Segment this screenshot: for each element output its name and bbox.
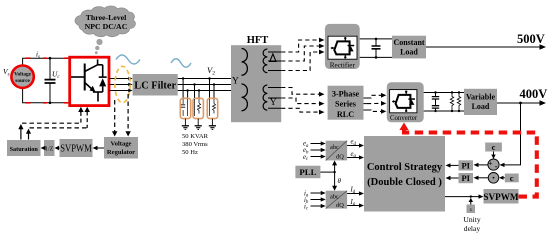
dashed wire HFT to RLC b — [281, 98, 320, 104]
sine wave symbol 2 — [171, 59, 191, 68]
svg-text:Voltage: Voltage — [110, 141, 131, 148]
wire bottom from source to inverter — [23, 88, 70, 103]
RLC bank 1 ground — [182, 119, 189, 130]
svg-text:Saturation: Saturation — [10, 146, 39, 153]
three-phase wires inverter to LC filter — [109, 79, 131, 91]
dashed wire HFT to RLC c — [281, 108, 320, 112]
voltage source V1 — [11, 66, 33, 88]
wires ia ib ic into abc/dQ — [311, 193, 323, 206]
svg-text:Voltage: Voltage — [14, 72, 32, 78]
split capacitor lower — [432, 105, 439, 111]
svg-text:dQ: dQ — [336, 154, 344, 161]
c box right — [505, 173, 519, 183]
arrowheads into LC filter — [128, 77, 132, 93]
svg-text:Constant: Constant — [393, 38, 424, 47]
load R element — [450, 93, 453, 110]
svg-text:Regulator: Regulator — [107, 149, 135, 156]
HFT transformer box — [231, 45, 281, 122]
red arrow into converter — [399, 123, 408, 131]
Saturation box — [7, 140, 41, 156]
svg-text:Y: Y — [270, 98, 277, 108]
svg-text:-: - — [495, 162, 498, 171]
DC link capacitor — [372, 39, 381, 58]
wire multiplier to PI2 — [476, 177, 488, 179]
wire PI2 to control strategy — [448, 177, 459, 179]
wire 1/Z to Saturation — [43, 147, 44, 149]
IGBT icon U1 — [71, 59, 103, 101]
node cap bottom — [49, 102, 52, 105]
node 400V feedback — [519, 102, 522, 105]
Converter block — [387, 82, 424, 122]
node cap top — [49, 57, 52, 60]
node taps to RLC banks — [183, 79, 214, 99]
svg-text:SVPWM: SVPWM — [60, 144, 92, 155]
label ea eb ec — [303, 141, 309, 163]
dashed measure wire to VR a — [114, 100, 116, 133]
wires Id Iq to control strategy — [347, 194, 361, 206]
three-phase wires LC filter to HFT — [178, 79, 231, 91]
node — [375, 38, 378, 41]
svg-text:Three-Level: Three-Level — [86, 13, 127, 22]
sine wave symbol 1 — [116, 55, 140, 64]
Rectifier block — [325, 24, 360, 69]
SVPWM box (output) — [483, 189, 519, 204]
dashed wire HFT to RLC a — [281, 88, 320, 95]
svg-text:c: c — [510, 173, 514, 183]
wire summer1 to PI1 — [476, 164, 488, 166]
feedback wire 400V to summer — [502, 103, 521, 165]
gate pulse dashed wires from Saturation — [18, 123, 87, 139]
label ia ib ic — [304, 190, 309, 211]
svg-text:Y: Y — [232, 77, 239, 87]
svg-text:c: c — [492, 142, 496, 152]
wire control strategy to SVPWM — [445, 196, 481, 198]
svg-text:PI: PI — [461, 173, 470, 183]
svg-text:·: · — [492, 172, 496, 184]
SVPWM box (modulator) — [60, 139, 93, 157]
svg-text:Rectifier: Rectifier — [330, 61, 356, 69]
svg-text:380 Vrms: 380 Vrms — [182, 141, 208, 148]
wire to 500V — [426, 46, 542, 48]
dashed wire RLC to Converter b — [364, 103, 368, 105]
svg-text:50 Hz: 50 Hz — [182, 149, 198, 156]
wire PLL theta — [320, 171, 334, 173]
wire top from source to inverter — [23, 58, 70, 65]
unity delay block — [467, 205, 476, 214]
red wire marks — [26, 57, 69, 103]
gate pulse arrows into inverter — [78, 107, 90, 128]
wire VR to SVPWM — [95, 147, 104, 149]
PLL box — [295, 166, 320, 179]
load L element — [457, 93, 460, 110]
svg-text:abc: abc — [330, 144, 339, 151]
dashed wire RLC to Converter a — [364, 97, 368, 99]
Constant Load box — [392, 36, 426, 59]
node theta — [333, 171, 335, 173]
svg-text:NPC DC/AC: NPC DC/AC — [85, 22, 128, 31]
svg-text:+: + — [488, 158, 492, 167]
svg-text:Load: Load — [472, 102, 490, 111]
HFT secondary winding delta — [263, 49, 267, 73]
wire c to summer1 — [493, 152, 495, 157]
svg-text:Unity: Unity — [463, 215, 481, 224]
svg-text:50 KVAR: 50 KVAR — [182, 133, 209, 140]
RLC bank 2 ground — [195, 119, 202, 130]
dashed wire HFT to Rectifier c — [281, 52, 320, 71]
wire c to multiplier — [502, 177, 505, 179]
node rails — [434, 91, 460, 112]
svg-text:HFT: HFT — [247, 35, 269, 46]
svg-text:dQ: dQ — [336, 202, 344, 209]
label 50 KVAR 380 Vrms 50 Hz — [182, 133, 209, 156]
RLC bank 3 — [207, 98, 217, 118]
dashed measure wire to VR b — [127, 94, 129, 133]
svg-text:500V: 500V — [517, 32, 545, 46]
DC link wires rectifier to constant load — [360, 39, 392, 58]
svg-text:θ: θ — [338, 177, 342, 185]
LC Filter box — [133, 74, 178, 96]
svg-text:Control Strategy: Control Strategy — [367, 162, 443, 173]
svg-text:delay: delay — [464, 224, 481, 233]
cloud Three-Level NPC DC/AC — [75, 6, 135, 37]
abc/dQ block (voltage) — [326, 141, 347, 161]
PI box 2 — [459, 173, 474, 183]
wire SVPWM to 1/Z — [57, 147, 60, 149]
cloud trail bubbles — [96, 39, 102, 45]
3-Phase Series RLC box — [328, 86, 364, 120]
c box top — [485, 142, 502, 152]
dashed wire RLC to Converter c — [364, 109, 368, 111]
Rectifier bridge icon — [331, 39, 350, 58]
svg-text:Converter: Converter — [390, 115, 418, 122]
Control Strategy box — [364, 136, 445, 212]
svg-text:Variable: Variable — [466, 93, 495, 102]
multiplier circle 2 — [488, 172, 499, 184]
wires ea eb ec into abc/dQ — [311, 144, 323, 157]
svg-text:PLL: PLL — [299, 167, 316, 177]
HFT secondary output stubs — [268, 52, 281, 108]
1/Z box — [44, 140, 55, 156]
dashed wire HFT to Rectifier b — [281, 46, 320, 61]
DC rails converter to variable load — [424, 93, 464, 112]
PI box 1 — [459, 160, 474, 170]
label ed eq — [351, 139, 357, 160]
RLC bank 2 — [193, 98, 203, 118]
svg-text:LC Filter: LC Filter — [134, 80, 176, 91]
HFT secondary winding Y — [263, 85, 267, 110]
wire theta to both abc/dQ — [334, 164, 336, 188]
capacitor C with label Uc — [45, 58, 61, 103]
svg-text:1/Z: 1/Z — [45, 147, 54, 153]
RLC bank 3 ground — [209, 119, 216, 130]
wire PI1 to control strategy — [448, 164, 459, 166]
split capacitor upper — [432, 93, 439, 106]
wires ed eq to control strategy — [347, 146, 361, 158]
RLC bank 1 — [180, 98, 190, 118]
wire to 400V — [497, 102, 542, 104]
yellow dashed ellipse (measurement zone) — [115, 66, 130, 102]
svg-text:(Double Closed ): (Double Closed ) — [367, 177, 442, 188]
Voltage Regulator box — [104, 137, 138, 159]
abc/dQ block (current) — [326, 191, 347, 209]
svg-text:source: source — [15, 78, 30, 84]
HFT primary winding Y — [242, 49, 248, 111]
svg-text:Series: Series — [335, 100, 356, 109]
Converter bridge icon — [392, 92, 410, 111]
svg-text:abc: abc — [330, 193, 339, 200]
label Id Iq — [350, 187, 356, 208]
NPC inverter box (red) — [70, 57, 109, 105]
wire unity delay up — [470, 201, 472, 205]
svg-text:Load: Load — [400, 48, 418, 57]
node unity delay tap — [470, 195, 472, 197]
svg-text:400V: 400V — [520, 87, 548, 101]
svg-text:PI: PI — [461, 161, 470, 171]
summer circle 1 — [488, 158, 499, 171]
svg-text:3-Phase: 3-Phase — [332, 90, 360, 99]
red dashed feedback SVPWM to Converter — [404, 128, 537, 197]
svg-text:RLC: RLC — [337, 110, 354, 119]
dashed wire HFT to Rectifier a — [281, 40, 320, 52]
svg-text:SVPWM: SVPWM — [483, 192, 519, 202]
Variable Load box — [464, 89, 497, 115]
